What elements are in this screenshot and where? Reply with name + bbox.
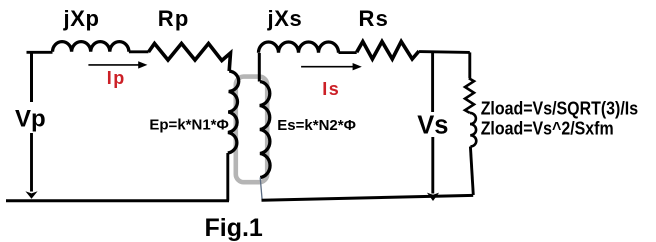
svg-text:jXs: jXs xyxy=(267,6,303,31)
svg-text:Ep=k*N1*Φ: Ep=k*N1*Φ xyxy=(149,117,228,134)
svg-text:Is: Is xyxy=(322,79,340,99)
svg-text:Fig.1: Fig.1 xyxy=(205,214,263,242)
svg-text:Rp: Rp xyxy=(158,6,190,31)
svg-text:Es=k*N2*Φ: Es=k*N2*Φ xyxy=(277,117,356,134)
svg-text:Zload=Vs^2/Sxfm: Zload=Vs^2/Sxfm xyxy=(481,118,614,138)
svg-text:jXp: jXp xyxy=(63,6,100,31)
svg-text:Ip: Ip xyxy=(107,68,126,88)
svg-text:Zload=Vs/SQRT(3)/Is: Zload=Vs/SQRT(3)/Is xyxy=(481,98,638,118)
svg-text:Vp: Vp xyxy=(15,106,46,133)
svg-text:Vs: Vs xyxy=(417,112,448,140)
svg-text:Rs: Rs xyxy=(359,6,390,31)
